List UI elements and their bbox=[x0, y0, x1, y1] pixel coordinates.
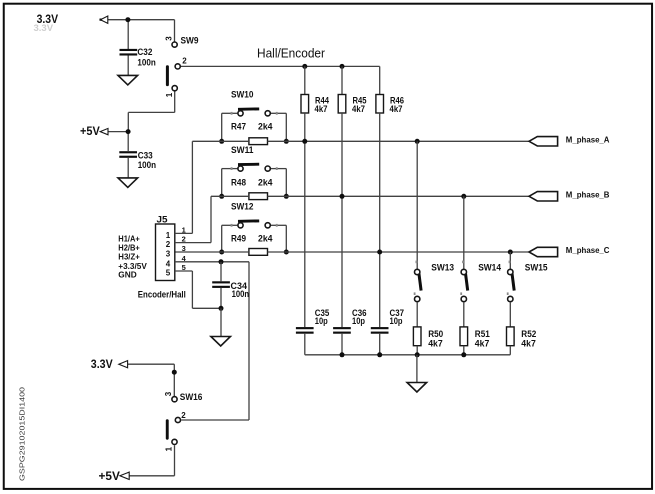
svg-text:+5V: +5V bbox=[99, 471, 121, 483]
svg-text:3.3V: 3.3V bbox=[34, 23, 54, 34]
svg-text:4k7: 4k7 bbox=[390, 104, 403, 114]
svg-text:1: 1 bbox=[165, 92, 174, 97]
svg-text:M_phase_C: M_phase_C bbox=[566, 246, 610, 255]
svg-text:Encoder/Hall: Encoder/Hall bbox=[138, 289, 186, 300]
svg-text:Hall/Encoder: Hall/Encoder bbox=[257, 46, 325, 60]
svg-text:3: 3 bbox=[164, 391, 173, 396]
svg-text:M_phase_A: M_phase_A bbox=[566, 135, 610, 144]
svg-text:2: 2 bbox=[182, 56, 187, 65]
svg-text:2k4: 2k4 bbox=[258, 234, 273, 244]
svg-text:+3.3/5V: +3.3/5V bbox=[118, 262, 147, 271]
svg-text:C32: C32 bbox=[137, 47, 152, 57]
svg-text:3: 3 bbox=[166, 250, 171, 259]
svg-text:10p: 10p bbox=[390, 316, 403, 326]
svg-text:4k7: 4k7 bbox=[352, 104, 365, 114]
svg-text:M_phase_B: M_phase_B bbox=[566, 190, 610, 199]
svg-text:SW9: SW9 bbox=[181, 36, 199, 46]
svg-text:3.3V: 3.3V bbox=[91, 359, 113, 371]
svg-text:SW14: SW14 bbox=[478, 262, 501, 272]
svg-text:H2/B+: H2/B+ bbox=[118, 243, 140, 252]
svg-text:100n: 100n bbox=[138, 160, 156, 170]
svg-text:R49: R49 bbox=[231, 234, 246, 244]
svg-text:R51: R51 bbox=[475, 329, 490, 339]
svg-text:SW12: SW12 bbox=[231, 202, 254, 212]
svg-text:GND: GND bbox=[118, 271, 137, 280]
svg-text:SW15: SW15 bbox=[525, 262, 548, 272]
svg-text:3: 3 bbox=[164, 36, 173, 41]
svg-text:SW13: SW13 bbox=[431, 262, 454, 272]
svg-text:5: 5 bbox=[166, 269, 171, 278]
svg-text:H3/Z+: H3/Z+ bbox=[118, 252, 140, 261]
svg-text:H1/A+: H1/A+ bbox=[118, 234, 140, 243]
svg-text:10p: 10p bbox=[352, 316, 365, 326]
svg-text:4k7: 4k7 bbox=[315, 104, 328, 114]
svg-text:+5V: +5V bbox=[80, 126, 100, 138]
svg-text:J5: J5 bbox=[157, 215, 168, 225]
svg-text:SW16: SW16 bbox=[180, 392, 203, 402]
svg-text:2k4: 2k4 bbox=[258, 178, 273, 188]
svg-text:GSPG29102015DI1400: GSPG29102015DI1400 bbox=[17, 387, 26, 481]
svg-text:R47: R47 bbox=[231, 122, 246, 132]
svg-text:4k7: 4k7 bbox=[475, 339, 490, 349]
svg-text:SW11: SW11 bbox=[231, 145, 254, 155]
svg-text:100n: 100n bbox=[232, 289, 250, 299]
svg-text:1: 1 bbox=[165, 446, 174, 451]
svg-text:R50: R50 bbox=[428, 329, 443, 339]
svg-text:4k7: 4k7 bbox=[521, 339, 536, 349]
svg-text:2: 2 bbox=[181, 411, 186, 420]
svg-text:4: 4 bbox=[166, 259, 171, 268]
svg-text:100n: 100n bbox=[137, 58, 155, 68]
svg-text:2k4: 2k4 bbox=[258, 122, 273, 132]
svg-text:C33: C33 bbox=[138, 150, 153, 160]
svg-text:R52: R52 bbox=[521, 329, 536, 339]
svg-text:SW10: SW10 bbox=[231, 89, 254, 99]
svg-text:4k7: 4k7 bbox=[428, 339, 443, 349]
svg-text:1: 1 bbox=[166, 231, 171, 240]
svg-text:10p: 10p bbox=[315, 316, 328, 326]
svg-text:3: 3 bbox=[182, 244, 186, 253]
svg-text:R48: R48 bbox=[231, 178, 246, 188]
svg-text:2: 2 bbox=[166, 240, 171, 249]
